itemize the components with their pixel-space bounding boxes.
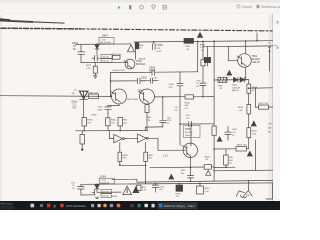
- svg-text:1.1V: 1.1V: [163, 156, 168, 158]
- capacitor C816: [78, 44, 85, 62]
- svg-text:TM: TM: [268, 124, 271, 126]
- wire y165.3: [120, 162, 146, 166]
- toolbar icon cursor: [118, 6, 121, 10]
- testpoint triangle filled: [251, 121, 256, 126]
- label box C919: [101, 194, 111, 198]
- wire into amp A1: [110, 131, 114, 139]
- resistor R871: [94, 62, 96, 66]
- node dots lineA: [155, 183, 156, 184]
- svg-text:R81a: R81a: [238, 107, 244, 109]
- svg-text:+7.5V: +7.5V: [100, 39, 106, 41]
- resistor R812: [89, 94, 99, 98]
- svg-text:R835: R835: [122, 155, 128, 157]
- taskbar icon red dot: [60, 204, 64, 208]
- svg-text:N 40: N 40: [157, 51, 162, 53]
- transistor T805a: [112, 89, 127, 104]
- ground marks: [95, 197, 99, 198]
- svg-text:1500: 1500: [141, 80, 147, 82]
- svg-text:R806: R806: [185, 102, 191, 104]
- taskbar icon colorful: [103, 204, 107, 208]
- svg-text:au(180) 150 P: au(180) 150 P: [112, 70, 126, 72]
- svg-text:C81 40: C81 40: [102, 191, 110, 193]
- wire y46.4: [204, 45, 273, 48]
- svg-text:2009 Oe SKguy - Paint: 2009 Oe SKguy - Paint: [164, 204, 195, 208]
- svg-text:C805: C805: [169, 84, 175, 86]
- page edge line: [272, 14, 274, 201]
- capacitor C905: [152, 184, 158, 192]
- svg-text:DON-SENSEAL..: DON-SENSEAL..: [66, 204, 88, 208]
- frame corner bottom right: [266, 183, 273, 199]
- svg-text:R871: R871: [86, 65, 92, 67]
- resistor R835: [119, 143, 121, 152]
- svg-text:Notebook an: Notebook an: [261, 5, 280, 9]
- start button: [31, 204, 35, 208]
- resistor R805: [82, 118, 87, 127]
- svg-text:2.2K: 2.2K: [142, 190, 147, 192]
- svg-text:2.2K: 2.2K: [200, 47, 205, 49]
- transistor T805b: [140, 89, 155, 104]
- ground R871: [93, 73, 97, 78]
- resistor R814: [212, 126, 216, 135]
- svg-text:C822: C822: [141, 77, 148, 80]
- svg-text:T805: T805: [138, 90, 144, 92]
- svg-text:(78404): (78404): [138, 59, 146, 61]
- warn triangle below: [206, 171, 211, 176]
- toolbar icon page: [163, 5, 166, 9]
- toolbar icon shape: [152, 5, 156, 10]
- taskbar icon white: [145, 204, 148, 207]
- svg-text:+1V: +1V: [232, 132, 236, 134]
- testpoint triangle filled: [197, 33, 202, 38]
- resistor R830: [218, 77, 227, 82]
- svg-text:R80a: R80a: [111, 120, 117, 122]
- right edge component column: [269, 47, 271, 71]
- svg-text:27K: 27K: [147, 120, 151, 122]
- active task button: [158, 202, 198, 209]
- drop to lower bus: [145, 165, 147, 183]
- x255 lower drop: [255, 140, 257, 170]
- svg-text:R801: R801: [252, 131, 258, 133]
- toolbar right: notebook label: [257, 5, 260, 8]
- op-amp A2: [138, 134, 147, 142]
- taskbar icon dark: [131, 204, 134, 207]
- svg-text:R805: R805: [87, 120, 93, 122]
- diode D810: [79, 91, 88, 99]
- svg-text:C82 40: C82 40: [102, 61, 110, 63]
- taskbar icon gray circle: [110, 204, 114, 208]
- label box C918: [101, 189, 111, 193]
- taskbar icon: [91, 204, 94, 207]
- wire y167.4 center: [150, 166, 204, 169]
- svg-text:R817 180: R817 180: [237, 145, 247, 147]
- right scrollbar strip: [273, 14, 280, 202]
- taskbar icon firefox: [117, 204, 121, 208]
- wire y81: [111, 80, 137, 82]
- resistor R801: [247, 128, 251, 138]
- taskbar icon doc: [152, 204, 155, 208]
- svg-text:1.5K: 1.5K: [238, 110, 243, 112]
- svg-text:D802: D802: [232, 85, 238, 87]
- toolbar icon pen: [129, 5, 131, 9]
- svg-text:Saved: Saved: [242, 5, 252, 9]
- testpoint triangle filled small: [169, 174, 174, 179]
- capacitor C815: [105, 104, 119, 114]
- svg-text:Tw: Tw: [229, 163, 232, 165]
- svg-text:2%: 2%: [185, 108, 188, 110]
- wire to T808 base: [148, 138, 186, 150]
- wire: [124, 137, 137, 139]
- svg-text:180L: 180L: [147, 117, 153, 119]
- T808 collector: [190, 124, 192, 146]
- svg-text:C802: C802: [232, 129, 238, 131]
- capacitor C825: [153, 42, 156, 50]
- capacitor C809 series: [152, 70, 155, 76]
- wire y170.6: [214, 169, 273, 172]
- scrollbar marks: [277, 21, 279, 24]
- resistor R841 dark: [204, 57, 210, 62]
- collector / emitter: [245, 41, 247, 80]
- svg-text:(04-05-08): (04-05-08): [100, 42, 110, 44]
- main right drop x214: [213, 41, 215, 126]
- svg-text:R8+8: R8+8: [252, 87, 258, 89]
- wire lineA: [81, 183, 273, 184]
- top-left page edge line: [0, 21, 32, 22]
- transistor T806: [125, 59, 135, 69]
- taskbar icon: [98, 204, 101, 207]
- label box C819: [101, 59, 112, 63]
- taskbar icon: [40, 204, 43, 207]
- wire down to T806: [135, 49, 137, 60]
- ground triangle filled: [217, 137, 222, 142]
- note box D904: [99, 178, 114, 184]
- node dots: [83, 130, 85, 132]
- svg-text:-36x 9T: -36x 9T: [185, 135, 193, 137]
- svg-text:1825: 1825: [181, 170, 187, 172]
- op-amp A1: [114, 134, 123, 142]
- dark box / filled component: [135, 43, 139, 49]
- svg-text:BBK/wano: BBK/wano: [1, 202, 14, 206]
- diode D802a: [234, 77, 238, 82]
- wire note-box feed y179: [112, 178, 137, 180]
- diode D906: [95, 185, 99, 189]
- wire bus y44: [76, 43, 132, 46]
- svg-text:SF1405: SF1405: [185, 132, 193, 134]
- wire y130.6: [76, 130, 146, 132]
- toolbar icon circle: [140, 5, 144, 9]
- svg-text:22P: 22P: [169, 87, 173, 89]
- main bus: [0, 95, 112, 98]
- taskbar icon teal: [138, 204, 141, 207]
- node dot: [96, 43, 98, 45]
- wire: [155, 71, 197, 73]
- testpoint triangle filled: [133, 187, 139, 193]
- svg-text:2.2K: 2.2K: [204, 191, 209, 193]
- capacitor C822 series: [137, 78, 140, 83]
- svg-text:..: ..: [274, 5, 276, 9]
- svg-text:BC546A: BC546A: [136, 63, 146, 66]
- svg-text:R843: R843: [205, 156, 211, 158]
- wire y124 + series cap C8: [180, 122, 214, 127]
- svg-text:(04-01-8): (04-01-8): [100, 183, 109, 185]
- resistor R870: [201, 60, 205, 66]
- toolbar background: [0, 0, 280, 3]
- capacitor C802: [225, 127, 231, 141]
- stub up x257: [256, 33, 258, 41]
- capacitor C913 series: [92, 190, 95, 195]
- wire lower y62.5: [81, 61, 126, 63]
- ground node: [81, 148, 83, 150]
- capacitor series small: [150, 78, 152, 83]
- wire y72.5: [111, 71, 152, 73]
- label box C818: [101, 54, 112, 58]
- transistor T800: [238, 54, 252, 68]
- resistor R843: [248, 80, 250, 84]
- wire lineB: [137, 180, 273, 182]
- diode D802b: [240, 77, 244, 82]
- svg-text:47K: 47K: [157, 48, 161, 50]
- x255 drop: [255, 88, 257, 107]
- left window edge: [0, 15, 2, 201]
- svg-text:7.3K: 7.3K: [252, 133, 257, 135]
- taskbar icon red: [47, 204, 50, 208]
- svg-text:2%: 2%: [175, 110, 178, 112]
- svg-text:220P: 220P: [98, 109, 104, 111]
- capacitor C916: [78, 184, 95, 195]
- svg-text:27K: 27K: [87, 122, 91, 124]
- svg-text:R841: R841: [200, 44, 206, 46]
- testpoint triangle open: [128, 45, 135, 52]
- svg-text:AD: AD: [268, 127, 271, 130]
- resistor R837: [145, 143, 147, 153]
- dashed border line: [1, 27, 80, 30]
- svg-text:18DB: 18DB: [91, 114, 97, 116]
- svg-text:47R: 47R: [167, 120, 171, 122]
- resistor R811: [107, 114, 109, 118]
- svg-text:Tw: Tw: [201, 50, 204, 52]
- testpoint triangle open: [123, 186, 132, 195]
- testpoint triangle filled: [247, 151, 252, 156]
- diode D801: [95, 45, 99, 49]
- wire: [141, 80, 150, 82]
- svg-text:R956: R956: [175, 193, 181, 195]
- node: [110, 80, 112, 82]
- transistor T901 symbol: [247, 181, 249, 191]
- resistor R810: [113, 55, 121, 59]
- wire drop x110.5: [110, 73, 112, 97]
- svg-text:560P: 560P: [149, 69, 155, 72]
- svg-text:C815: C815: [98, 107, 104, 109]
- resistor R967: [197, 186, 204, 194]
- svg-text:R810 470: R810 470: [112, 54, 122, 56]
- resistor R804 dark: [184, 38, 194, 43]
- resistor R806: [185, 95, 194, 99]
- base feed T800: [228, 46, 238, 60]
- resistor R916: [137, 185, 141, 190]
- svg-text:C825: C825: [157, 44, 164, 47]
- svg-text:D80?: D80?: [102, 35, 109, 38]
- svg-text:T808: T808: [185, 128, 191, 131]
- page / canvas area: [0, 14, 280, 202]
- svg-text:R812 120: R812 120: [89, 92, 99, 94]
- resistor R843b: [204, 165, 211, 170]
- svg-text:(AL70): (AL70): [232, 89, 239, 92]
- resistor R802: [259, 105, 269, 109]
- transistor T808: [183, 143, 197, 157]
- capacitor C825b: [188, 167, 194, 181]
- resistor R956 dark: [176, 185, 183, 191]
- resistor R819: [247, 105, 251, 115]
- svg-text:R908: R908: [112, 196, 118, 198]
- toolbar right: Saved: [237, 5, 240, 8]
- note box D801: [99, 37, 114, 44]
- wire y148.8: [214, 148, 236, 150]
- resistor R817: [236, 147, 247, 152]
- svg-text:27P: 27P: [186, 118, 190, 120]
- svg-text:56K: 56K: [185, 105, 189, 107]
- wire y88.3 right: [249, 87, 273, 89]
- svg-text:R8?2 100: R8?2 100: [259, 103, 269, 105]
- svg-text:1505: 1505: [159, 186, 165, 188]
- svg-text:1N4148: 1N4148: [232, 87, 240, 89]
- testpoint triangle filled: [227, 71, 232, 76]
- svg-text:...: ...: [1, 8, 4, 12]
- svg-text:-26k 9T: -26k 9T: [252, 61, 261, 64]
- capacitor C813 series: [92, 56, 100, 62]
- svg-text:R837: R837: [148, 155, 154, 157]
- svg-text:D904: D904: [101, 177, 107, 179]
- emitter down: [190, 156, 192, 167]
- page background: [0, 0, 280, 210]
- svg-text:R967: R967: [204, 188, 210, 190]
- T808 label frame: [184, 125, 201, 137]
- svg-text:C81 40: C81 40: [102, 56, 110, 58]
- resistor R816: [225, 149, 227, 155]
- svg-text:C82 40: C82 40: [102, 196, 110, 198]
- resistor R815: [81, 131, 83, 135]
- svg-text:2.7K: 2.7K: [86, 68, 91, 70]
- resistor R813: [118, 118, 123, 127]
- svg-text:2xBC546B: 2xBC546B: [127, 99, 138, 101]
- emitter resistor R804b: [146, 103, 148, 106]
- wire y167.3: [214, 166, 235, 168]
- wire y192.3: [97, 191, 121, 193]
